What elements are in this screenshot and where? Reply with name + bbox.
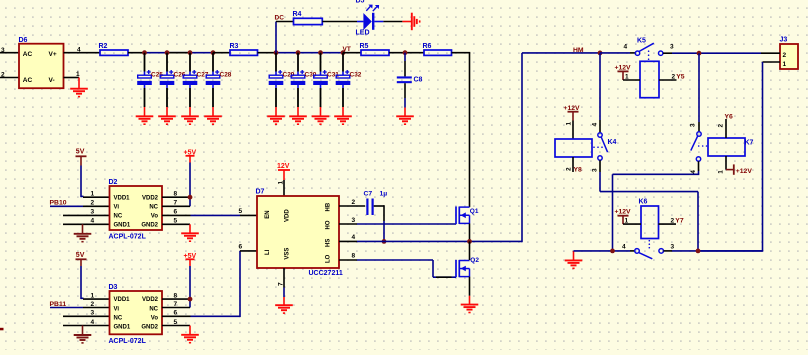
opto-isolator D2	[109, 179, 163, 241]
svg-text:2: 2	[671, 217, 675, 224]
ground at D3 pin 4	[74, 326, 92, 344]
svg-text:5: 5	[239, 208, 243, 215]
svg-text:C32: C32	[350, 72, 362, 79]
ground at C30	[289, 107, 307, 125]
svg-text:NC: NC	[149, 306, 158, 312]
wire D7 HB pin 2	[339, 199, 365, 206]
ground at C27	[181, 107, 199, 125]
wire D2 pin 3	[63, 209, 110, 216]
svg-text:3: 3	[690, 123, 697, 127]
svg-text:1: 1	[625, 217, 629, 224]
svg-text:R5: R5	[360, 43, 369, 50]
wire rail to K7 switch	[690, 53, 700, 132]
svg-text:6: 6	[239, 243, 243, 250]
wire rail to K5	[600, 44, 635, 53]
svg-text:1: 1	[91, 191, 95, 198]
wire PB11 to D3 pin 2	[50, 301, 110, 308]
wire D7 HO pin 3 to Q1 gate	[339, 217, 456, 224]
svg-text:2: 2	[783, 52, 787, 59]
svg-text:4: 4	[91, 319, 95, 326]
wire D6 pin 4 output	[64, 47, 101, 54]
wire R4 to LED	[322, 21, 363, 23]
resistor R2	[99, 43, 129, 56]
svg-text:C8: C8	[414, 77, 423, 84]
junction K7 branch	[610, 249, 615, 254]
wire C7 to HS net	[374, 205, 384, 241]
svg-text:VSS: VSS	[284, 248, 290, 260]
svg-text:3: 3	[592, 168, 599, 172]
ground at C8	[396, 108, 414, 126]
svg-text:4: 4	[77, 47, 81, 54]
junction D3 pin 8	[188, 297, 193, 302]
svg-text:DC: DC	[275, 15, 285, 22]
svg-text:2: 2	[91, 301, 95, 308]
switch K4	[593, 133, 616, 160]
junction C28	[211, 50, 216, 55]
svg-text:2: 2	[718, 124, 725, 128]
wire R5 to R6	[389, 52, 424, 54]
svg-text:K5: K5	[637, 38, 646, 45]
svg-text:C28: C28	[220, 72, 232, 79]
svg-text:VDD2: VDD2	[142, 195, 159, 201]
svg-text:6: 6	[174, 209, 178, 216]
wire D2 pin 6 Vo to D7 EN	[162, 208, 257, 216]
ground at D2 pin 5	[181, 224, 199, 242]
wire LED to ground	[383, 21, 402, 23]
switch K7	[691, 132, 708, 161]
driver U7 UCC27211	[256, 189, 343, 278]
svg-text:5: 5	[174, 319, 178, 326]
capacitor C7 1u	[364, 191, 388, 216]
ground at D3 pin 5	[181, 326, 199, 344]
wire K5 to J3 rail	[663, 44, 761, 54]
svg-text:HS: HS	[326, 239, 332, 247]
svg-text:3: 3	[91, 310, 95, 317]
wire Q2 drain	[469, 241, 471, 260]
svg-text:1: 1	[718, 170, 725, 174]
svg-text:4: 4	[690, 170, 697, 174]
bridge rectifier D6	[19, 37, 64, 88]
wire AC input pin 2	[0, 72, 19, 79]
power 5V (D3)	[76, 252, 87, 266]
svg-text:Y7: Y7	[675, 218, 684, 225]
junction D2 pin 8	[188, 195, 193, 200]
svg-text:+12V: +12V	[615, 64, 632, 71]
svg-text:+12V: +12V	[564, 105, 581, 112]
junction C30	[296, 50, 301, 55]
capacitor C32	[336, 53, 362, 107]
svg-text:Y5: Y5	[676, 73, 685, 80]
wire 12V to D7 VDD pin 1	[278, 180, 285, 196]
svg-text:ACPL-072L: ACPL-072L	[109, 338, 147, 345]
ground at C32	[334, 107, 352, 125]
svg-text:4: 4	[622, 244, 626, 251]
wire R2 to C25 node	[128, 52, 145, 54]
svg-text:D7: D7	[256, 189, 265, 196]
svg-text:1: 1	[278, 181, 285, 185]
svg-text:2: 2	[91, 200, 95, 207]
wire 5V to D2 pin 1	[81, 166, 110, 198]
svg-text:2: 2	[1, 72, 5, 79]
svg-text:J3: J3	[780, 37, 788, 44]
junction C8	[403, 50, 408, 55]
wire K4 coil pin 2 net Y8	[566, 157, 574, 172]
ground at C26	[158, 107, 176, 125]
junction C29/DC	[274, 50, 279, 55]
junction K4 tap	[598, 51, 603, 56]
wire D3 pin 5	[162, 319, 190, 326]
svg-text:3: 3	[670, 44, 674, 51]
svg-text:VDD1: VDD1	[114, 195, 131, 201]
capacitor C29	[269, 53, 295, 107]
svg-text:1: 1	[566, 122, 573, 126]
wire bottom bus right	[664, 244, 763, 251]
wire K7 coil pin 2 net Y6	[718, 119, 727, 138]
junction C7/HS	[382, 239, 387, 244]
svg-text:1: 1	[91, 292, 95, 299]
capacitor C30	[291, 53, 317, 107]
relay coil K6	[639, 199, 659, 239]
power +5V (D2)	[184, 149, 197, 162]
wire rail to K4 switch	[592, 53, 601, 133]
svg-text:4: 4	[91, 218, 95, 225]
svg-text:HM: HM	[573, 47, 584, 54]
junction C27	[188, 50, 193, 55]
node PB11	[50, 301, 67, 308]
junction C25	[142, 50, 147, 55]
svg-text:ACPL-072L: ACPL-072L	[109, 234, 147, 241]
svg-text:NC: NC	[149, 204, 158, 210]
wire D7 LO pin 8 to Q2 gate	[339, 253, 456, 278]
svg-text:R3: R3	[230, 43, 239, 50]
node Y7	[675, 218, 684, 225]
wire PB10 to D2 pin 2	[50, 200, 110, 207]
wire K7 coil pin 1	[718, 156, 727, 174]
resistor R3	[230, 43, 258, 56]
svg-text:7: 7	[174, 301, 178, 308]
svg-text:5V: 5V	[76, 252, 85, 259]
junction K4 branch	[696, 249, 701, 254]
ground at D2 pin 4	[74, 224, 92, 242]
svg-text:GND1: GND1	[114, 223, 131, 229]
svg-text:4: 4	[624, 44, 628, 51]
opto-isolator D3	[109, 284, 163, 345]
svg-text:1µ: 1µ	[380, 191, 388, 198]
ground at C31	[312, 107, 330, 125]
wire bus C25-C28	[145, 52, 214, 54]
svg-text:Vo: Vo	[151, 214, 159, 220]
wire D2 pin 4	[63, 218, 110, 225]
junction K7 tap	[697, 51, 702, 56]
svg-text:1: 1	[76, 71, 80, 78]
svg-text:GND1: GND1	[114, 325, 131, 331]
svg-text:R4: R4	[293, 11, 302, 18]
svg-text:V-: V-	[49, 77, 55, 84]
wire D6 pin 1	[64, 71, 81, 78]
wire D7 VSS pin 7	[278, 268, 285, 297]
svg-text:GND2: GND2	[141, 223, 158, 229]
capacitor C25	[137, 53, 163, 107]
junction half-bridge midpoint	[467, 239, 472, 244]
ground at C25	[136, 107, 154, 125]
relay coil K5	[640, 61, 659, 97]
svg-text:1: 1	[625, 74, 629, 81]
svg-text:Y8: Y8	[574, 166, 583, 173]
ground at C28	[204, 107, 222, 125]
svg-text:Vi: Vi	[114, 306, 120, 312]
wire R3 to DC node	[258, 52, 277, 54]
wire D7 HS pin 4	[339, 234, 522, 241]
svg-text:3: 3	[352, 217, 356, 224]
svg-text:V+: V+	[49, 51, 57, 58]
svg-text:NC: NC	[114, 315, 123, 321]
wire D3 pin 8	[162, 292, 190, 299]
junction C26	[165, 50, 170, 55]
svg-text:+12V: +12V	[736, 168, 753, 175]
svg-text:LED: LED	[356, 30, 370, 37]
wire +12V to K4 coil pin 1	[566, 121, 574, 140]
wire K6 coil pin 2 net Y7	[659, 217, 677, 224]
power +12V (K6)	[615, 209, 632, 224]
wire DC branch	[276, 22, 294, 53]
wire 5V to D3 pin 1	[81, 266, 110, 299]
wire D3 pin 3	[63, 310, 110, 317]
svg-text:D3: D3	[109, 284, 118, 291]
svg-text:4: 4	[352, 234, 356, 241]
capacitor C31	[313, 53, 339, 107]
svg-text:C7: C7	[364, 191, 373, 198]
svg-text:R6: R6	[423, 43, 432, 50]
node Y8	[574, 166, 583, 173]
transistor Q2	[456, 257, 479, 277]
resistor R4	[293, 11, 323, 25]
svg-text:K6: K6	[639, 199, 648, 206]
node Y5	[676, 73, 685, 80]
connector J3	[780, 37, 799, 70]
capacitor C26	[160, 53, 186, 107]
ground at bottom bus	[565, 251, 583, 269]
svg-text:6: 6	[174, 310, 178, 317]
svg-text:HO: HO	[326, 220, 332, 229]
power +12V (K4)	[564, 105, 581, 121]
svg-text:D5: D5	[356, 0, 365, 5]
svg-text:VDD: VDD	[284, 209, 290, 222]
svg-text:Vo: Vo	[151, 315, 159, 321]
power 5V (D2)	[76, 149, 87, 166]
switch K6	[635, 240, 664, 259]
wire +5V to D3 pins 8,7	[189, 266, 191, 308]
wire R6 to Q1 drain	[452, 53, 471, 207]
svg-text:D6: D6	[19, 37, 28, 44]
wire K5 coil pin 1	[623, 74, 640, 81]
svg-text:Vi: Vi	[114, 204, 120, 210]
svg-text:12V: 12V	[277, 163, 290, 170]
power 12V (D7)	[277, 163, 290, 180]
wire K4 pin 3 to bottom bus	[592, 160, 699, 251]
capacitor C27	[183, 53, 209, 107]
transistor Q1	[456, 207, 479, 225]
wire D3 pin 6 Vo to D7 LI	[162, 243, 257, 317]
capacitor C28	[206, 53, 232, 107]
svg-text:8: 8	[174, 292, 178, 299]
svg-text:D2: D2	[109, 179, 118, 186]
relay coil K4	[555, 139, 592, 157]
svg-text:+12V: +12V	[615, 209, 632, 216]
svg-text:7: 7	[174, 200, 178, 207]
svg-text:3: 3	[671, 244, 675, 251]
svg-text:VDD2: VDD2	[142, 297, 159, 303]
wire bus C29-C32	[276, 52, 343, 54]
svg-text:2: 2	[352, 199, 356, 206]
node Y6	[725, 113, 734, 120]
junction C31	[318, 50, 323, 55]
svg-text:GND2: GND2	[141, 325, 158, 331]
wire J3 pin 1 to bottom bus	[698, 62, 780, 251]
svg-text:Q1: Q1	[470, 208, 479, 215]
wire D3 pin 7	[162, 301, 190, 308]
capacitor C8	[397, 53, 423, 108]
svg-text:3: 3	[91, 209, 95, 216]
relay coil K7	[708, 138, 754, 156]
node VT	[343, 46, 351, 53]
svg-text:4: 4	[592, 123, 599, 127]
wire midpoint to HM rail	[522, 53, 600, 242]
wire D2 pin 8	[162, 191, 190, 198]
svg-text:8: 8	[174, 191, 178, 198]
wire Q1 source to midpoint	[469, 223, 471, 241]
svg-text:LI: LI	[265, 249, 271, 255]
node HM	[573, 47, 584, 54]
wire K6 coil pin 1	[623, 217, 641, 224]
svg-text:5V: 5V	[76, 149, 85, 156]
svg-text:5: 5	[174, 218, 178, 225]
wire D2 pin 7	[162, 200, 190, 207]
power +5V (D3)	[184, 253, 197, 266]
wire J3 pin 2	[761, 52, 780, 54]
ground at Q2 source	[461, 296, 479, 314]
svg-text:Y6: Y6	[725, 113, 734, 120]
power +12V (K5)	[615, 64, 632, 80]
switch K5	[635, 38, 663, 61]
node PB10	[50, 200, 67, 207]
junction C32/VT	[341, 50, 346, 55]
svg-text:HB: HB	[326, 202, 332, 211]
svg-text:8: 8	[352, 253, 356, 260]
wire bottom bus left	[574, 244, 635, 251]
svg-text:AC: AC	[23, 77, 33, 84]
power +12V (K7)	[726, 164, 752, 174]
svg-text:EN: EN	[265, 210, 271, 218]
ground at D6 pin 1	[70, 78, 88, 98]
svg-text:R2: R2	[99, 43, 108, 50]
svg-text:K4: K4	[608, 139, 617, 146]
wire K7 pin 4	[613, 161, 700, 251]
wire +5V to D2 pins 8,7	[189, 163, 191, 207]
svg-text:NC: NC	[114, 214, 123, 220]
wire Q2 source to ground	[469, 277, 471, 296]
sheet mark	[0, 328, 4, 331]
wire D3 pin 4	[63, 319, 110, 326]
ground at LED (rotated)	[402, 13, 420, 31]
resistor R5	[360, 43, 390, 56]
wire VT to R5	[343, 52, 361, 54]
wire AC input pin 3	[0, 47, 19, 54]
svg-text:1: 1	[783, 61, 787, 68]
svg-text:2: 2	[672, 73, 676, 80]
wire C28 node to R3	[213, 52, 230, 54]
svg-text:Q2: Q2	[470, 257, 479, 264]
svg-text:UCC27211: UCC27211	[309, 270, 343, 277]
svg-text:2: 2	[566, 167, 573, 171]
svg-text:K7: K7	[745, 139, 754, 146]
ground at D7 pin 7	[275, 297, 293, 314]
svg-text:7: 7	[278, 282, 285, 286]
wire D2 pin 5	[162, 218, 190, 225]
node DC	[275, 15, 285, 22]
svg-text:VDD1: VDD1	[114, 297, 131, 303]
svg-text:3: 3	[1, 47, 5, 54]
LED D5	[356, 0, 384, 37]
resistor R6	[423, 43, 452, 56]
svg-text:AC: AC	[23, 51, 33, 58]
wire K5 coil pin 2 net Y5	[659, 73, 677, 80]
svg-text:LO: LO	[326, 254, 332, 263]
ground at C29	[267, 107, 285, 125]
